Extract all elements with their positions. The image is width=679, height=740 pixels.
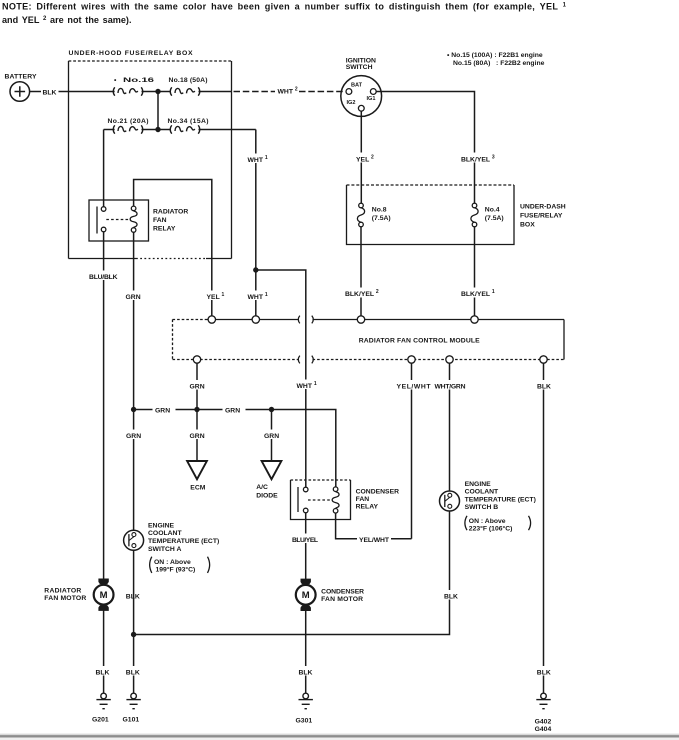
svg-text:BLK: BLK [537, 669, 551, 676]
svg-text:ON : Above: ON : Above [469, 518, 506, 525]
svg-text:• No.15 (100A) : F22B1 engine: • No.15 (100A) : F22B1 engine [447, 52, 543, 59]
svg-text:No.16: No.16 [123, 77, 154, 84]
svg-text:SWITCH A: SWITCH A [148, 546, 181, 553]
svg-text:BLK: BLK [43, 89, 57, 96]
svg-text:GRN: GRN [126, 294, 141, 301]
svg-text:FUSE/RELAY: FUSE/RELAY [520, 213, 563, 220]
svg-text:BLU/BLK: BLU/BLK [89, 274, 118, 281]
svg-text:BLK: BLK [299, 669, 313, 676]
svg-text:(7.5A): (7.5A) [372, 215, 391, 222]
svg-text:ENGINE: ENGINE [148, 522, 175, 529]
svg-text:BLK/YEL 1: BLK/YEL 1 [461, 289, 495, 298]
svg-text:FAN: FAN [153, 217, 167, 224]
svg-text:WHT 1: WHT 1 [248, 292, 268, 301]
svg-text:ENGINE: ENGINE [465, 481, 492, 488]
svg-text:WHT 1: WHT 1 [297, 381, 317, 390]
svg-text:COOLANT: COOLANT [465, 489, 499, 496]
svg-text:BLK: BLK [126, 669, 140, 676]
svg-text:BLK: BLK [126, 593, 140, 600]
svg-text:A/C: A/C [256, 484, 268, 491]
svg-text:GRN: GRN [126, 433, 141, 440]
svg-text:FAN MOTOR: FAN MOTOR [321, 596, 363, 603]
svg-text:FAN: FAN [356, 496, 370, 503]
svg-text:NOTE: Different wires with th: NOTE: Different wires with the same colo… [2, 1, 567, 11]
svg-text:BLK: BLK [537, 383, 551, 390]
svg-text:YEL/WHT: YEL/WHT [359, 537, 390, 544]
svg-text:G201: G201 [92, 717, 109, 724]
svg-text:UNDER-DASH: UNDER-DASH [520, 204, 566, 211]
svg-text:TEMPERATURE (ECT): TEMPERATURE (ECT) [148, 538, 219, 545]
svg-text:SWITCH: SWITCH [346, 64, 373, 71]
svg-text:BAT: BAT [351, 82, 363, 88]
svg-text:199°F (93°C): 199°F (93°C) [156, 566, 196, 574]
svg-text:RADIATOR: RADIATOR [153, 209, 188, 216]
svg-text:RADIATOR FAN CONTROL MODULE: RADIATOR FAN CONTROL MODULE [359, 338, 480, 345]
svg-text:BLU/YEL: BLU/YEL [292, 537, 318, 544]
svg-text:G301: G301 [296, 718, 313, 725]
svg-text:RADIATOR: RADIATOR [44, 588, 81, 595]
svg-text:GRN: GRN [264, 433, 279, 440]
svg-text:BATTERY: BATTERY [5, 74, 37, 81]
svg-text:IG2: IG2 [347, 100, 356, 106]
svg-text:and YEL 2 are not the same).: and YEL 2 are not the same). [2, 15, 131, 25]
svg-text:GRN: GRN [190, 383, 205, 390]
svg-text:BLK/YEL 3: BLK/YEL 3 [461, 155, 495, 164]
svg-text:WHT 1: WHT 1 [248, 155, 268, 164]
svg-text:(7.5A): (7.5A) [485, 215, 504, 222]
svg-text:BLK/YEL 2: BLK/YEL 2 [345, 289, 379, 298]
svg-text:COOLANT: COOLANT [148, 530, 182, 537]
svg-text:WHT 2: WHT 2 [278, 87, 298, 96]
svg-text:No.4: No.4 [485, 207, 500, 214]
svg-text:RELAY: RELAY [153, 226, 176, 233]
svg-text:YEL/WHT: YEL/WHT [397, 383, 432, 390]
svg-text:No.34 (15A): No.34 (15A) [168, 118, 209, 125]
svg-text:G101: G101 [123, 717, 140, 724]
svg-text:G404: G404 [535, 726, 552, 733]
svg-text:GRN: GRN [190, 433, 205, 440]
svg-text:DIODE: DIODE [256, 492, 278, 499]
svg-text:IG1: IG1 [367, 96, 376, 102]
svg-text:WHT/GRN: WHT/GRN [435, 383, 466, 390]
svg-text:BLK: BLK [444, 593, 458, 600]
svg-text:ECM: ECM [190, 485, 205, 492]
svg-text:No.18 (50A): No.18 (50A) [169, 77, 208, 84]
svg-text:SWITCH B: SWITCH B [465, 504, 499, 511]
svg-text:No.8: No.8 [372, 207, 387, 214]
svg-text:FAN MOTOR: FAN MOTOR [44, 595, 86, 602]
svg-text:CONDENSER: CONDENSER [356, 489, 400, 496]
svg-text:TEMPERATURE (ECT): TEMPERATURE (ECT) [465, 496, 536, 503]
svg-text:RELAY: RELAY [356, 504, 379, 511]
svg-text:UNDER-HOOD FUSE/RELAY BOX: UNDER-HOOD FUSE/RELAY BOX [69, 50, 193, 57]
svg-text:G402: G402 [535, 719, 552, 726]
svg-text:ON : Above: ON : Above [154, 559, 191, 566]
svg-text:No.15 (80A) : F22B2 engine: No.15 (80A) : F22B2 engine [453, 60, 545, 67]
svg-text:BOX: BOX [520, 222, 535, 229]
svg-text:BLK: BLK [96, 669, 110, 676]
svg-text:GRN: GRN [155, 408, 170, 415]
svg-text:223°F (106°C): 223°F (106°C) [469, 524, 513, 532]
svg-text:CONDENSER: CONDENSER [321, 589, 364, 596]
svg-text:GRN: GRN [225, 408, 240, 415]
svg-text:No.21 (20A): No.21 (20A) [108, 118, 149, 125]
